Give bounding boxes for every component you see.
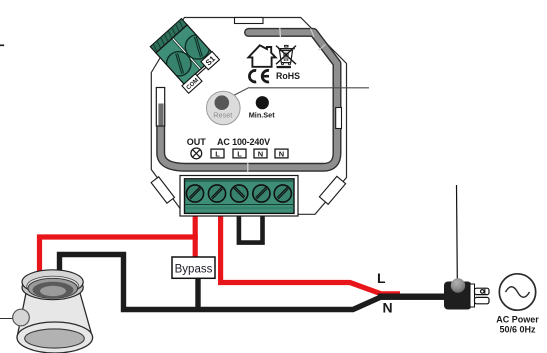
svg-text:AC Power: AC Power xyxy=(496,315,539,325)
svg-text:50/6 0Hz: 50/6 0Hz xyxy=(499,325,536,335)
svg-text:Reset: Reset xyxy=(213,111,232,120)
svg-text:AC 100-240V: AC 100-240V xyxy=(217,137,270,147)
svg-text:L: L xyxy=(237,149,242,158)
svg-text:N: N xyxy=(383,300,393,316)
svg-text:Bypass: Bypass xyxy=(175,264,213,276)
svg-text:L: L xyxy=(377,270,386,286)
svg-text:N: N xyxy=(279,149,284,158)
svg-text:L: L xyxy=(215,149,220,158)
svg-text:OUT: OUT xyxy=(187,137,207,147)
svg-text:N: N xyxy=(258,149,263,158)
svg-text:RoHS: RoHS xyxy=(276,71,300,81)
svg-text:Min.Set: Min.Set xyxy=(249,111,276,120)
